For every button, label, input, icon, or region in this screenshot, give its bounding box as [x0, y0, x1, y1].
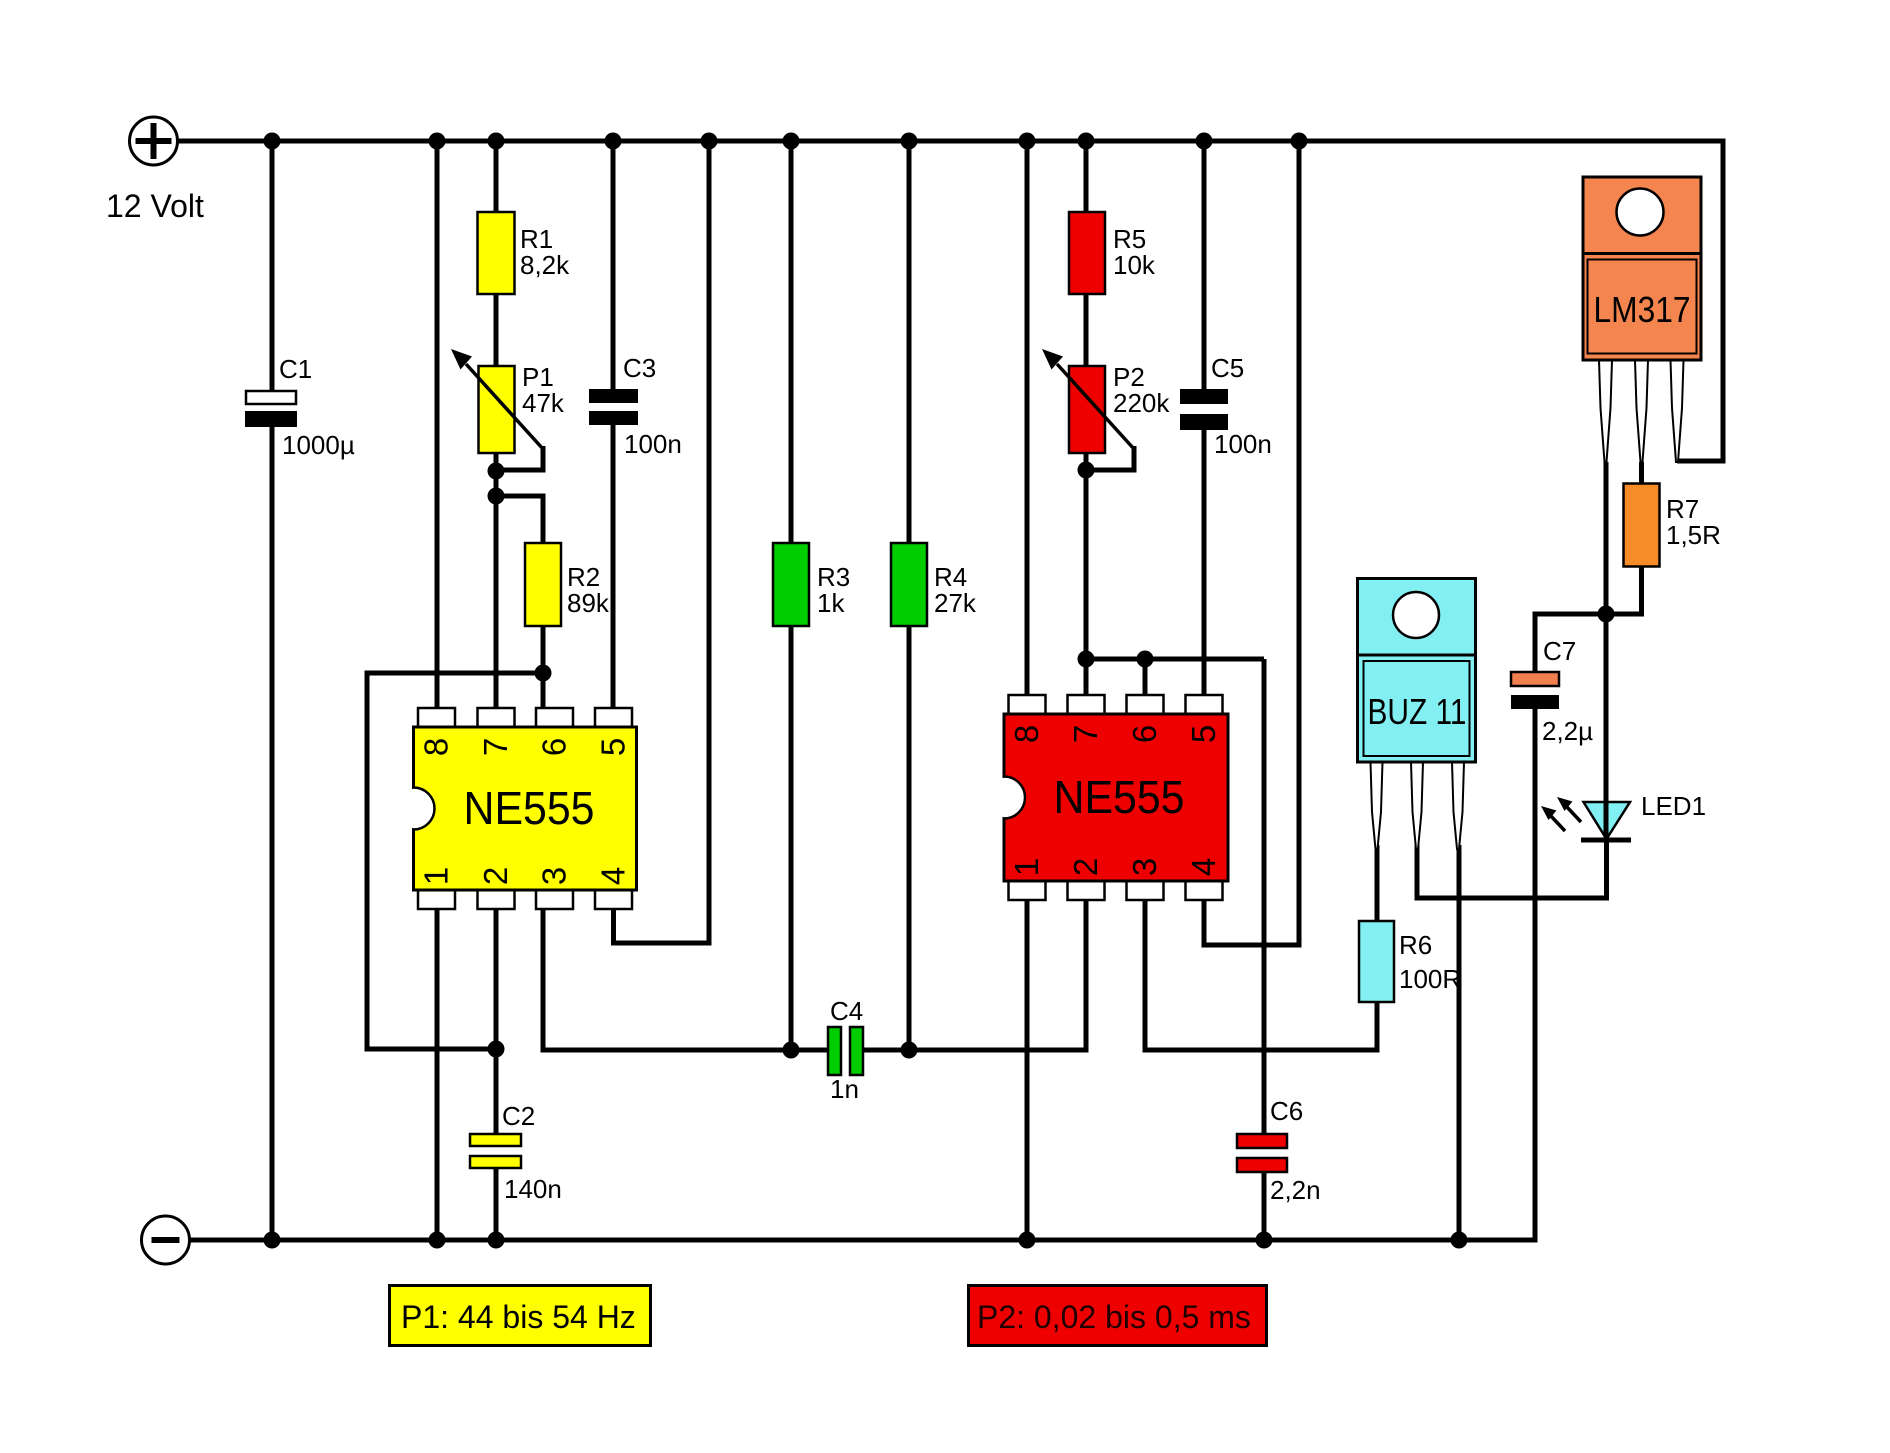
wire: red NE555 pins 6-7 junction link — [1086, 657, 1264, 662]
capacitor C5 100n — [1180, 353, 1272, 459]
P2 wiper diagonal arrow — [1042, 349, 1134, 449]
svg-text:100R: 100R — [1399, 964, 1461, 994]
wire: LM317 OUT pin to R7 top — [1639, 462, 1644, 485]
resistor R2 89k — [525, 543, 610, 626]
svg-text:C3: C3 — [623, 353, 656, 383]
resistor R7 1,5R — [1624, 484, 1721, 567]
svg-text:10k: 10k — [1113, 250, 1156, 280]
svg-text:100n: 100n — [624, 429, 682, 459]
junction: pin2 yellow / bracket node — [488, 1041, 505, 1058]
svg-text:LED1: LED1 — [1641, 791, 1706, 821]
IC U2 NE555 (red) — [1000, 695, 1229, 900]
MOSFET Q1 BUZ 11 — [1358, 579, 1476, 850]
junction: ground/C2 — [488, 1232, 505, 1249]
junction: ground/BUZ11 source — [1451, 1232, 1468, 1249]
svg-text:7: 7 — [477, 738, 514, 756]
junction: ground/pin1 yellow — [429, 1232, 446, 1249]
plus terminal (+12V) — [130, 117, 178, 165]
junction: rail/pin4 red return — [1291, 133, 1308, 150]
junction: rail/C5 — [1196, 133, 1213, 150]
wire: junction link down to C6 top — [1262, 659, 1267, 1135]
junction: rail/R4 — [901, 133, 918, 150]
wire: yellow NE555 pin 3 to C4 left plate — [543, 908, 829, 1050]
wire: R5 bottom to P2 top — [1084, 293, 1089, 367]
label box P2 range — [969, 1286, 1267, 1346]
potentiometer P1 47k — [479, 362, 565, 453]
svg-text:2: 2 — [477, 867, 514, 885]
wire: C6 bottom to ground — [1262, 1171, 1267, 1240]
junction: rail/pin8 yellow — [429, 133, 446, 150]
wire: R2 bottom to yellow NE555 pin 6 — [541, 624, 546, 710]
junction: rail/R5 — [1078, 133, 1095, 150]
capacitor C1 1000u electrolytic — [245, 354, 355, 460]
wire: pin6-pin2 bracket of yellow NE555 — [367, 673, 545, 1049]
wire: yellow NE555 pin 2 to C2 top — [494, 908, 499, 1135]
wire: P2 wiper vertical+horizontal to node — [1086, 446, 1134, 470]
junction: rail/C1 — [264, 133, 281, 150]
wire: R7 bottom to ADJ node — [1535, 566, 1642, 674]
svg-text:1,5R: 1,5R — [1666, 520, 1721, 550]
svg-text:1n: 1n — [830, 1074, 859, 1104]
wire: C3 bottom to yellow NE555 pin 5 — [611, 424, 616, 710]
svg-text:7: 7 — [1067, 725, 1104, 743]
capacitor C7 2,2u — [1511, 636, 1593, 746]
svg-text:1k: 1k — [817, 588, 845, 618]
svg-text:6: 6 — [536, 738, 573, 756]
wire: rail to R1 top — [494, 138, 499, 213]
svg-text:1: 1 — [418, 867, 455, 885]
wire: rail to R3 top — [789, 138, 794, 545]
wire: rail to C3 top — [611, 138, 616, 390]
junction: R3 / C4 node — [783, 1042, 800, 1059]
svg-text:BUZ 11: BUZ 11 — [1368, 691, 1467, 732]
resistor R6 100R — [1359, 921, 1461, 1002]
voltage regulator U3 LM317 — [1583, 177, 1701, 462]
svg-text:12 Volt: 12 Volt — [106, 188, 204, 224]
wire: +12V top rail from plus terminal to LM317 input — [177, 141, 1723, 461]
wire: rail to red NE555 pin 8 — [1025, 138, 1030, 698]
svg-text:27k: 27k — [934, 588, 977, 618]
capacitor C2 140n — [470, 1101, 562, 1204]
label box P1 range — [390, 1286, 651, 1346]
svg-text:3: 3 — [536, 867, 573, 885]
capacitor C6 2,2n — [1237, 1096, 1321, 1205]
junction: rail/pin8 red — [1019, 133, 1036, 150]
svg-text:8: 8 — [1008, 725, 1045, 743]
svg-text:2,2µ: 2,2µ — [1542, 716, 1593, 746]
capacitor C4 1n — [828, 996, 863, 1104]
junction: rail/R3 — [783, 133, 800, 150]
svg-text:4: 4 — [1185, 858, 1222, 876]
svg-text:2,2n: 2,2n — [1270, 1175, 1321, 1205]
svg-text:8: 8 — [418, 738, 455, 756]
wire: red NE555 pin 1 to ground — [1025, 896, 1030, 1240]
svg-text:C2: C2 — [502, 1101, 535, 1131]
svg-text:P2: 0,02 bis 0,5 ms: P2: 0,02 bis 0,5 ms — [977, 1299, 1251, 1335]
resistor R5 10k — [1069, 212, 1156, 294]
wire: rail to R5 top — [1084, 138, 1089, 213]
junction: R2 branch node — [488, 488, 505, 505]
wire: red NE555 pin 6 stub — [1143, 659, 1148, 698]
IC U1 NE555 (yellow) — [409, 708, 637, 909]
P1 wiper diagonal arrow — [451, 349, 543, 449]
svg-text:47k: 47k — [522, 388, 565, 418]
svg-text:89k: 89k — [567, 588, 610, 618]
svg-text:1000µ: 1000µ — [282, 430, 355, 460]
wire: red NE555 pin 3 to R6 bottom — [1145, 896, 1377, 1050]
junction: pin6 yellow / R2 node — [535, 665, 552, 682]
svg-text:C1: C1 — [279, 354, 312, 384]
svg-text:NE555: NE555 — [464, 782, 595, 834]
junction: rail/pin4 yellow return — [701, 133, 718, 150]
junction: ground/C1 — [264, 1232, 281, 1249]
wire: rail to C5 top — [1202, 138, 1207, 390]
svg-text:5: 5 — [595, 738, 632, 756]
svg-text:NE555: NE555 — [1054, 771, 1185, 823]
wire: BUZ11 source to ground — [1457, 845, 1462, 1240]
junction: pin6 red node — [1137, 651, 1154, 668]
svg-text:C7: C7 — [1543, 636, 1576, 666]
svg-text:5: 5 — [1185, 725, 1222, 743]
svg-text:6: 6 — [1126, 725, 1163, 743]
wire: ground bottom rail to C7 ground branch — [189, 707, 1535, 1240]
resistor R3 1k — [773, 543, 850, 626]
svg-text:8,2k: 8,2k — [520, 250, 570, 280]
junction: P1 wiper node — [488, 463, 505, 480]
svg-text:100n: 100n — [1214, 429, 1272, 459]
svg-text:R6: R6 — [1399, 930, 1432, 960]
junction: ADJ / R7 / C7 / LED node — [1598, 606, 1615, 623]
wire: C4 right plate to red NE555 pin 2 — [862, 898, 1086, 1050]
wire: yellow NE555 pin 4 to +12V rail — [614, 138, 710, 943]
wire: C5 bottom to red NE555 pin 5 — [1202, 424, 1207, 698]
junction: P2 wiper node — [1078, 462, 1095, 479]
svg-text:P1: 44 bis 54 Hz: P1: 44 bis 54 Hz — [401, 1299, 636, 1335]
wire: C1 bottom branch — [270, 427, 275, 1240]
svg-text:3: 3 — [1126, 858, 1163, 876]
svg-text:C5: C5 — [1211, 353, 1244, 383]
svg-text:C4: C4 — [830, 996, 863, 1026]
wire: R4 bottom to C4 node — [907, 624, 912, 1050]
wire: rail to yellow NE555 pin 8 — [435, 138, 440, 710]
wire: LM317 ADJ pin down through node to LED anode — [1604, 462, 1609, 804]
junction: ground/C6 — [1256, 1232, 1273, 1249]
junction: rail/C3 — [605, 133, 622, 150]
svg-text:4: 4 — [595, 867, 632, 885]
junction: pin7 red node — [1078, 651, 1095, 668]
wire: R3 bottom to C4 node — [789, 624, 794, 1050]
wire: R6 top to BUZ11 gate — [1375, 845, 1380, 920]
wire: R1 bottom to P1 top — [494, 293, 499, 367]
wire: P1 bottom to yellow NE555 pin 7 — [494, 452, 499, 710]
svg-text:140n: 140n — [504, 1174, 562, 1204]
minus terminal — [142, 1216, 190, 1264]
wire: C2 bottom to ground — [494, 1167, 499, 1240]
resistor R1 8,2k — [478, 212, 571, 294]
potentiometer P2 220k — [1069, 362, 1170, 453]
wire: rail to R4 top — [907, 138, 912, 545]
wire: P2 bottom to red NE555 pin 7 — [1084, 452, 1089, 698]
wire: C1 top branch — [270, 138, 275, 392]
wire: BUZ11 drain to LED cathode — [1417, 838, 1607, 898]
resistor R4 27k — [891, 543, 977, 626]
svg-text:2: 2 — [1067, 858, 1104, 876]
wire: node to R2 top jumper — [496, 496, 543, 545]
svg-text:C6: C6 — [1270, 1096, 1303, 1126]
capacitor C3 100n — [589, 353, 682, 459]
svg-text:LM317: LM317 — [1594, 289, 1691, 330]
svg-text:220k: 220k — [1113, 388, 1170, 418]
wire: yellow NE555 pin 1 to ground — [435, 908, 440, 1240]
wire: P1 wiper vertical+horizontal to node — [496, 446, 543, 470]
junction: ground/pin1 red — [1019, 1232, 1036, 1249]
svg-text:1: 1 — [1008, 858, 1045, 876]
junction: R4 / C4 node — [901, 1042, 918, 1059]
wire: red NE555 pin 4 to +12V rail — [1204, 138, 1299, 945]
junction: rail/R1 — [488, 133, 505, 150]
LED1 — [1541, 791, 1706, 840]
